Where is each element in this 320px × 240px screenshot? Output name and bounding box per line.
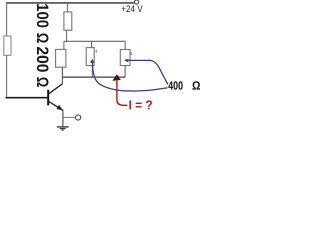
blue leader arrowhead middle resistor <box>90 59 94 63</box>
wire collector rail <box>62 76 125 78</box>
blue leader arrowhead right resistor <box>124 59 128 63</box>
wire left vertical lower <box>6 55 8 98</box>
label 100 (rotated) <box>37 4 49 27</box>
terminal circle bottom <box>76 115 81 120</box>
label +24 V <box>122 5 143 12</box>
+24V terminal circle <box>135 0 139 4</box>
blue leader to middle 400 ohm resistor <box>92 61 167 91</box>
wire base horizontal <box>6 97 48 99</box>
label ohm for 200 (rotated) <box>37 77 49 86</box>
wire top rail from left branch to +24V terminal <box>6 2 134 4</box>
transistor Q1 collector diagonal <box>49 84 63 94</box>
wire mid resistor bottom stub <box>91 66 93 78</box>
label ohm for 400 <box>192 81 200 89</box>
wire left vertical upper <box>6 2 8 36</box>
red current arrowhead at collector rail <box>112 74 120 81</box>
label 400 ohm <box>168 81 182 90</box>
ground bar 2 <box>60 128 66 130</box>
pin mark right resistor <box>131 52 132 55</box>
wire mid resistor top stub <box>91 41 93 47</box>
red current leader line <box>117 80 127 106</box>
wire collector vertical <box>61 67 63 84</box>
resistor R4 400 ohm (right) <box>120 50 130 66</box>
ground bar 1 <box>57 126 69 128</box>
wire emitter branch to terminal <box>63 116 76 118</box>
pin mark mid resistor <box>96 50 97 53</box>
transistor Q1 base bar <box>47 90 49 106</box>
wire right resistor top stub <box>124 41 126 49</box>
wire right resistor bottom stub <box>124 66 126 78</box>
resistor R2 200 ohm <box>56 49 66 67</box>
wire 100 ohm bottom stub <box>66 30 68 41</box>
label ohm for 100 (rotated) <box>37 33 49 42</box>
wire 200 ohm top stub <box>63 41 65 49</box>
wire emitter vertical <box>62 110 64 126</box>
blue leader to right 400 ohm resistor <box>125 60 168 84</box>
transistor Q1 emitter arrowhead <box>56 105 62 111</box>
resistor R-left (unlabeled) <box>4 36 11 55</box>
transistor Q1 emitter diagonal <box>49 101 63 110</box>
wire 100 ohm top stub <box>66 3 68 12</box>
wire middle rail <box>64 40 125 42</box>
ground bar 3 <box>62 129 64 131</box>
resistor R3 400 ohm (middle) <box>86 48 94 66</box>
resistor R1 100 ohm <box>64 12 72 30</box>
label 200 (rotated) <box>37 47 49 72</box>
label I = ? <box>129 100 152 109</box>
